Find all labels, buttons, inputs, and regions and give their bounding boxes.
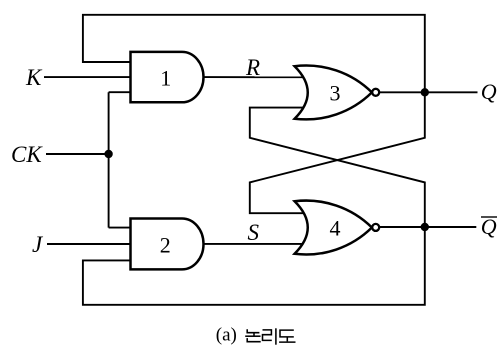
svg-text:J: J xyxy=(32,232,44,257)
node CK junction xyxy=(104,150,112,158)
wire J input xyxy=(47,243,131,245)
svg-text:S: S xyxy=(248,220,260,245)
nor-gate 4 bubble xyxy=(372,224,379,231)
wire cross Qbar to gate3 lower input xyxy=(250,108,425,227)
wire R net xyxy=(205,76,311,78)
nor-gate 3 bubble xyxy=(372,89,379,96)
wire S net xyxy=(205,243,311,245)
svg-text:CK: CK xyxy=(11,142,43,167)
wire Q output xyxy=(379,91,477,93)
label Qbar overline xyxy=(481,216,497,218)
wire cross Q to gate4 upper input xyxy=(250,92,425,213)
svg-text:4: 4 xyxy=(330,216,341,241)
wire CK vertical bus xyxy=(108,92,110,227)
svg-text:3: 3 xyxy=(330,80,341,105)
svg-text:K: K xyxy=(25,65,43,90)
nor-gate 4 body xyxy=(295,201,372,255)
and-gate 2 xyxy=(131,219,204,270)
node Qbar junction xyxy=(421,223,429,231)
svg-text:Q: Q xyxy=(481,79,497,104)
svg-text:R: R xyxy=(245,55,260,80)
wire K input xyxy=(44,76,131,78)
svg-text:(a): (a) xyxy=(216,324,237,345)
wire bottom feedback Qbar to gate2 xyxy=(83,227,425,305)
wire CK input xyxy=(46,153,109,155)
wire CK to gate2 stub xyxy=(109,227,131,229)
wire Qbar output xyxy=(379,226,476,228)
svg-text:1: 1 xyxy=(160,66,171,91)
svg-text:2: 2 xyxy=(160,233,171,258)
caption hangul ri xyxy=(263,328,276,344)
and-gate 1 xyxy=(131,52,204,102)
wire top feedback Q to gate1 xyxy=(83,15,425,93)
wire CK to gate1 stub xyxy=(109,91,131,93)
nor-gate 3 body xyxy=(295,65,372,119)
caption hangul non xyxy=(245,329,261,342)
node Q junction xyxy=(421,88,429,96)
caption hangul do xyxy=(279,330,295,342)
